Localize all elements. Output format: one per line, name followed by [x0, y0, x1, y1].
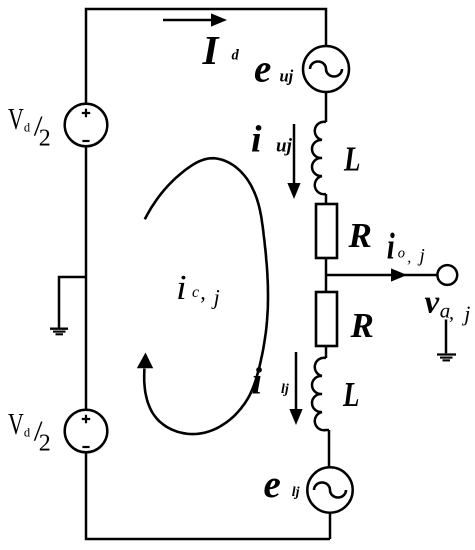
AC source e_uj [303, 46, 349, 92]
arrow i_lj [289, 352, 302, 425]
node A (output terminal) [437, 265, 457, 285]
label i_lj [252, 361, 289, 403]
svg-text:2: 2 [39, 125, 51, 151]
wire R1 to junction to R2 [325, 258, 328, 292]
arrow Id (top) [163, 13, 227, 26]
svg-text:uj: uj [276, 136, 293, 157]
label Vd/2 upper [8, 101, 51, 152]
svg-text:d: d [232, 48, 240, 64]
svg-text:e: e [254, 48, 271, 91]
svg-text:,: , [200, 280, 206, 305]
label i_o,j [387, 227, 425, 268]
wire left between sources [85, 146, 88, 409]
inductor L upper [312, 122, 326, 194]
svg-text:i: i [176, 268, 187, 307]
wire R2 to coil L lower [325, 346, 328, 358]
arrow i_uj [287, 124, 300, 199]
svg-text:2: 2 [39, 430, 51, 456]
label i_uj [251, 118, 293, 160]
svg-text:,: , [407, 249, 411, 266]
svg-text:lj: lj [292, 485, 300, 500]
svg-text:R: R [348, 216, 372, 255]
svg-text:j: j [461, 301, 470, 326]
wire coil to resistor R upper [325, 194, 328, 204]
voltage source V2 (lower Vd/2) [65, 410, 108, 453]
resistor R1 [316, 204, 337, 258]
circulating current loop arc [144, 158, 268, 434]
label Id [202, 27, 240, 73]
label v_a,j [425, 285, 471, 327]
svg-text:j: j [417, 246, 425, 267]
label Vd/2 lower [8, 406, 51, 457]
svg-text:d: d [24, 426, 31, 440]
svg-text:i: i [251, 118, 262, 160]
svg-text:e: e [264, 463, 281, 506]
wire e_uj to coil L upper [325, 92, 328, 122]
wire coil lower to e_lj [328, 430, 331, 468]
ground right (under v_a,j) [437, 320, 456, 361]
svg-text:v: v [425, 285, 440, 321]
svg-text:R: R [350, 306, 374, 345]
wire top horizontal and left/right corners [86, 9, 326, 104]
ground left [50, 277, 86, 334]
svg-text:lj: lj [281, 382, 289, 397]
svg-text:j: j [211, 284, 220, 309]
svg-text:L: L [343, 140, 360, 179]
svg-text:V: V [8, 101, 24, 136]
svg-text:I: I [202, 27, 221, 73]
svg-text:d: d [24, 121, 31, 135]
wire left bottom [86, 452, 330, 539]
label i_c,j [176, 268, 220, 309]
svg-text:o: o [398, 246, 405, 262]
svg-text:V: V [8, 406, 24, 441]
circulating current arrowhead [137, 353, 153, 369]
AC source e_lj [307, 467, 352, 512]
label e_lj [264, 463, 300, 506]
svg-text:,: , [449, 302, 454, 324]
voltage source V1 (upper Vd/2) [65, 104, 108, 147]
svg-text:c: c [192, 284, 199, 301]
inductor L lower [312, 358, 329, 430]
wire e_lj to bottom [329, 512, 332, 539]
svg-text:i: i [252, 361, 263, 403]
arrow i_o,j output [391, 268, 407, 281]
svg-text:i: i [387, 227, 396, 268]
resistor R2 [316, 292, 337, 346]
svg-text:uj: uj [280, 67, 294, 86]
svg-text:L: L [342, 375, 359, 414]
wire output branch [326, 274, 437, 277]
label e_uj [254, 48, 294, 91]
